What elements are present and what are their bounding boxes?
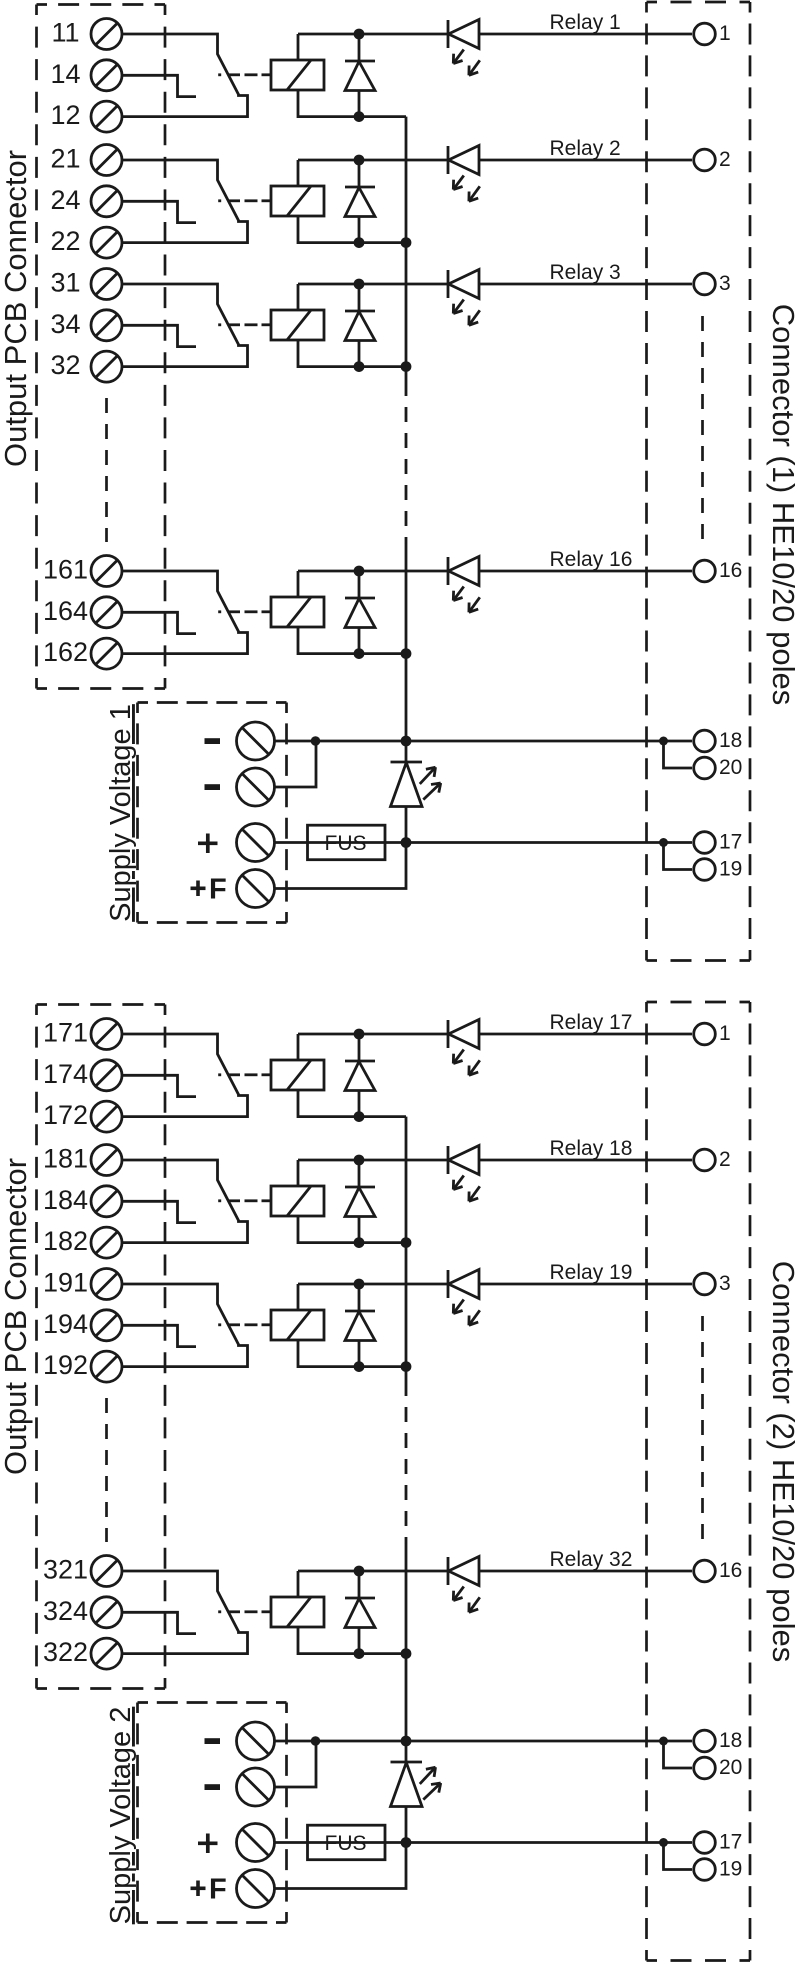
terminal 192 (screw) [91, 1351, 122, 1382]
svg-text:Relay 18: Relay 18 [550, 1137, 633, 1160]
svg-text:Relay 3: Relay 3 [550, 261, 621, 284]
wire LED to pin 1 [479, 33, 692, 36]
terminal +F screw [237, 1870, 275, 1908]
junction bus / relay bottom 2 [401, 1237, 412, 1248]
wire coil K19 bottom [298, 1340, 406, 1367]
terminal +F screw [237, 870, 275, 908]
svg-text:3: 3 [719, 272, 731, 295]
svg-text:Relay 19: Relay 19 [550, 1261, 633, 1284]
top rail relay 16 [298, 570, 448, 573]
wire coil K19 top [297, 1284, 300, 1310]
terminal 24 (screw) [91, 186, 122, 217]
terminal 324 (screw) [91, 1597, 122, 1628]
svg-text:34: 34 [50, 309, 80, 339]
connector pin 16 [694, 560, 716, 582]
svg-text:32: 32 [50, 350, 80, 380]
junction bus / relay bottom 3 [401, 1361, 412, 1372]
top rail relay 1 [298, 33, 448, 36]
wire LED to pin 2 [479, 159, 692, 162]
negative bus continuation (dashed) [405, 381, 408, 544]
wire coil K16 bottom [298, 627, 406, 654]
terminal + screw [237, 1824, 275, 1862]
svg-text:161: 161 [43, 555, 88, 585]
LED Relay 16 [447, 557, 450, 585]
connector pin 3 [694, 273, 716, 295]
connector pin 16 [694, 1560, 716, 1582]
svg-text:Relay 16: Relay 16 [550, 548, 633, 571]
junction bus / relay bottom 2 [401, 237, 412, 248]
top rail relay 3 [298, 283, 448, 286]
svg-text:Connector (2) HE10/20 poles: Connector (2) HE10/20 poles [766, 1261, 800, 1663]
svg-text:182: 182 [43, 1226, 88, 1256]
terminal - (1) screw [237, 1722, 275, 1760]
wire 324 NO contact stub [122, 1612, 196, 1633]
wire coil K3 bottom [298, 340, 406, 367]
terminal 322 (screw) [91, 1638, 122, 1669]
svg-text:F: F [209, 874, 227, 906]
connector pin 3 [694, 1273, 716, 1295]
relay coil K17 [271, 1060, 324, 1090]
relay coil K3 [271, 310, 324, 340]
junction diode D32 top [354, 1566, 365, 1577]
svg-text:18: 18 [719, 729, 742, 752]
wire coil K17 top [297, 1034, 300, 1060]
relay coil K16 [271, 597, 324, 627]
svg-text:Output PCB Connector: Output PCB Connector [0, 1158, 33, 1475]
wire 14 NO contact stub [122, 75, 196, 96]
wire LED to pin 2 [479, 1159, 692, 1162]
connector pin 19 [694, 1859, 716, 1881]
terminal 21 (screw) [91, 145, 122, 176]
junction bus / relay bottom 16 [401, 1648, 412, 1659]
wire 194 NO contact stub [122, 1325, 196, 1346]
wire 21-blade-22 with contact blade K2 [122, 160, 248, 243]
junction diode D1 top [354, 29, 365, 40]
actuating link K32 (dash-dot) [218, 1610, 221, 1613]
wire - rail [275, 1740, 693, 1743]
terminal 34 (screw) [91, 310, 122, 341]
LED Relay 2 [447, 146, 450, 174]
relay coil K1 [271, 60, 324, 90]
relay coil K19 [271, 1310, 324, 1340]
wire 171-blade-172 with contact blade K17 [122, 1034, 248, 1117]
junction - terminals [311, 1736, 321, 1746]
junction diode D2 bottom [354, 237, 365, 248]
LED Relay 17 [447, 1020, 450, 1048]
wire 164 NO contact stub [122, 612, 196, 633]
wire 184 NO contact stub [122, 1201, 196, 1222]
svg-text:321: 321 [43, 1555, 88, 1585]
svg-text:2: 2 [719, 148, 731, 171]
svg-text:171: 171 [43, 1018, 88, 1048]
actuating link K1 (dash-dot) [218, 73, 221, 76]
terminal 321 (screw) [91, 1556, 122, 1587]
LED Relay 19 [447, 1270, 450, 1298]
flyback diode D32 [358, 1571, 361, 1598]
wire coil K1 top [297, 34, 300, 60]
junction diode D17 top [354, 1029, 365, 1040]
svg-text:172: 172 [43, 1100, 88, 1130]
wire tap to pin 19 [664, 1843, 693, 1870]
svg-text:Supply Voltage 2: Supply Voltage 2 [105, 1707, 137, 1925]
junction - rail / bus [401, 1736, 412, 1747]
junction + rail / LED [401, 1837, 412, 1848]
junction - terminals [311, 736, 321, 746]
svg-text:174: 174 [43, 1059, 88, 1089]
junction diode D18 top [354, 1155, 365, 1166]
wire - (2) to - rail [275, 1741, 317, 1787]
wire 11-blade-12 with contact blade K1 [122, 34, 248, 117]
terminal 184 (screw) [91, 1186, 122, 1217]
LED Relay 32 [447, 1557, 450, 1585]
wire 191-blade-192 with contact blade K19 [122, 1284, 248, 1367]
terminal 182 (screw) [91, 1227, 122, 1258]
wire 181-blade-182 with contact blade K18 [122, 1160, 248, 1243]
Connector (2) HE10/20 poles box [647, 1002, 751, 1961]
junction diode D16 top [354, 566, 365, 577]
wire coil K18 bottom [298, 1216, 406, 1243]
fuse FUS 1 [308, 825, 386, 860]
supply LED 2 [405, 1741, 408, 1762]
negative bus (solid upper) [405, 1117, 408, 1381]
svg-text:19: 19 [719, 1858, 742, 1881]
wire coil K3 top [297, 284, 300, 310]
relay coil K18 [271, 1186, 324, 1216]
svg-text:192: 192 [43, 1350, 88, 1380]
terminal 172 (screw) [91, 1101, 122, 1132]
connector pin 18 [694, 1730, 716, 1752]
terminal column continuation (dashed) [105, 398, 108, 542]
wire 34 NO contact stub [122, 325, 196, 346]
junction diode D19 top [354, 1279, 365, 1290]
terminal 164 (screw) [91, 597, 122, 628]
flyback diode D18 [358, 1160, 361, 1187]
wire +F to + rail [275, 843, 407, 889]
terminal 11 (screw) [91, 19, 122, 50]
wire coil K18 top [297, 1160, 300, 1186]
connector pin 1 [694, 1023, 716, 1045]
svg-text:324: 324 [43, 1596, 88, 1626]
top rail relay 17 [298, 1033, 448, 1036]
wire + rail (through fuse) [275, 841, 693, 844]
terminal - (2) label [205, 784, 221, 790]
terminal + screw [237, 824, 275, 862]
svg-text:3: 3 [719, 1272, 731, 1295]
terminal 14 (screw) [91, 60, 122, 91]
terminal 12 (screw) [91, 101, 122, 132]
top rail relay 19 [298, 1283, 448, 1286]
junction + rail / LED [401, 837, 412, 848]
flyback diode D3 [358, 284, 361, 311]
svg-text:Relay 32: Relay 32 [550, 1548, 633, 1571]
wire +F to + rail [275, 1843, 407, 1889]
actuating link K2 (dash-dot) [218, 199, 221, 202]
connector pin 18 [694, 730, 716, 752]
svg-text:17: 17 [719, 1831, 742, 1854]
svg-text:1: 1 [719, 22, 731, 45]
terminal - (2) screw [237, 768, 275, 806]
relay coil K32 [271, 1597, 324, 1627]
supply LED 1 [405, 741, 408, 762]
junction diode D3 bottom [354, 361, 365, 372]
junction diode D19 bottom [354, 1361, 365, 1372]
terminal +F label [191, 886, 206, 890]
wire tap to pin 20 [664, 741, 693, 768]
svg-text:24: 24 [50, 185, 80, 215]
junction bus / relay bottom 16 [401, 648, 412, 659]
wire tap to pin 19 [664, 843, 693, 870]
terminal - (1) screw [237, 722, 275, 760]
terminal - (1) label [205, 738, 221, 744]
wire coil K2 bottom [298, 216, 406, 243]
Output PCB Connector box (1) [37, 5, 166, 689]
terminal column continuation (dashed) [105, 1398, 108, 1542]
svg-text:22: 22 [50, 226, 80, 256]
terminal +F label [191, 1887, 206, 1891]
svg-text:18: 18 [719, 1729, 742, 1752]
actuating link K16 (dash-dot) [218, 610, 221, 613]
svg-text:164: 164 [43, 596, 88, 626]
svg-text:191: 191 [43, 1268, 88, 1298]
svg-text:16: 16 [719, 1559, 742, 1582]
wire 161-blade-162 with contact blade K16 [122, 571, 248, 654]
wire LED to pin 16 [479, 1570, 692, 1573]
negative bus continuation (dashed) [405, 1381, 408, 1544]
wire LED to pin 1 [479, 1033, 692, 1036]
terminal 31 (screw) [91, 269, 122, 300]
svg-text:12: 12 [50, 100, 80, 130]
wire coil K16 top [297, 571, 300, 597]
svg-text:Relay 1: Relay 1 [550, 11, 621, 34]
connector pin 17 [694, 832, 716, 854]
terminal + label [198, 1841, 218, 1845]
junction diode D18 bottom [354, 1237, 365, 1248]
fuse FUS 2 [308, 1825, 386, 1860]
connector pin 20 [694, 757, 716, 779]
terminal - (2) label [205, 1784, 221, 1790]
wire 31-blade-32 with contact blade K3 [122, 284, 248, 367]
LED Relay 18 [447, 1146, 450, 1174]
junction diode D16 bottom [354, 648, 365, 659]
relay coil K2 [271, 186, 324, 216]
svg-text:20: 20 [719, 756, 742, 779]
svg-text:Relay 2: Relay 2 [550, 137, 621, 160]
flyback diode D2 [358, 160, 361, 187]
junction diode D1 bottom [354, 111, 365, 122]
svg-text:F: F [209, 1874, 227, 1906]
junction + rail / pin 19 tap [659, 1838, 668, 1847]
svg-text:181: 181 [43, 1144, 88, 1174]
terminal 194 (screw) [91, 1310, 122, 1341]
negative bus (solid lower) [405, 544, 408, 741]
svg-text:14: 14 [50, 59, 80, 89]
junction diode D17 bottom [354, 1111, 365, 1122]
svg-text:11: 11 [51, 18, 79, 48]
svg-text:Connector (1) HE10/20 poles: Connector (1) HE10/20 poles [766, 304, 800, 706]
connector pin 17 [694, 1832, 716, 1854]
junction - rail / bus [401, 736, 412, 747]
connector pin 1 [694, 23, 716, 45]
svg-text:Supply Voltage 1: Supply Voltage 1 [105, 704, 137, 922]
junction bus / relay bottom 3 [401, 361, 412, 372]
negative bus (solid upper) [405, 117, 408, 381]
connector pin 2 [694, 149, 716, 171]
actuating link K17 (dash-dot) [218, 1073, 221, 1076]
Connector (1) HE10/20 poles box [647, 2, 751, 961]
pin column continuation (dashed) [701, 316, 704, 546]
svg-text:194: 194 [43, 1309, 88, 1339]
wire 321-blade-322 with contact blade K32 [122, 1571, 248, 1654]
top rail relay 2 [298, 159, 448, 162]
svg-text:162: 162 [43, 637, 88, 667]
junction diode D32 bottom [354, 1648, 365, 1659]
terminal - (2) screw [237, 1768, 275, 1806]
wire coil K32 bottom [298, 1627, 406, 1654]
actuating link K18 (dash-dot) [218, 1199, 221, 1202]
connector pin 20 [694, 1757, 716, 1779]
svg-text:17: 17 [719, 831, 742, 854]
svg-text:16: 16 [719, 559, 742, 582]
svg-text:184: 184 [43, 1185, 88, 1215]
actuating link K3 (dash-dot) [218, 323, 221, 326]
wire 174 NO contact stub [122, 1075, 196, 1096]
wire LED to pin 3 [479, 283, 692, 286]
terminal 32 (screw) [91, 351, 122, 382]
svg-text:21: 21 [50, 144, 80, 174]
flyback diode D17 [358, 1034, 361, 1061]
terminal 22 (screw) [91, 227, 122, 258]
terminal 191 (screw) [91, 1269, 122, 1300]
connector pin 19 [694, 859, 716, 881]
terminal - (1) label [205, 1738, 221, 1744]
svg-text:322: 322 [43, 1637, 88, 1667]
svg-text:19: 19 [719, 858, 742, 881]
wire + rail (through fuse) [275, 1841, 693, 1844]
LED Relay 3 [447, 270, 450, 298]
wire - rail [275, 740, 693, 743]
wire 24 NO contact stub [122, 201, 196, 222]
flyback diode D1 [358, 34, 361, 61]
wire LED to pin 16 [479, 570, 692, 573]
flyback diode D19 [358, 1284, 361, 1311]
wire tap to pin 20 [664, 1741, 693, 1768]
svg-text:Relay 17: Relay 17 [550, 1011, 633, 1034]
junction diode D2 top [354, 155, 365, 166]
LED Relay 1 [447, 20, 450, 48]
svg-text:2: 2 [719, 1148, 731, 1171]
junction + rail / pin 19 tap [659, 838, 668, 847]
svg-text:FUS: FUS [325, 1832, 367, 1855]
wire - (2) to - rail [275, 741, 317, 787]
Supply Voltage 2 box [138, 1703, 287, 1923]
connector pin 2 [694, 1149, 716, 1171]
svg-text:20: 20 [719, 1756, 742, 1779]
svg-text:FUS: FUS [325, 832, 367, 855]
pin column continuation (dashed) [701, 1316, 704, 1546]
Output PCB Connector box (2) [37, 1005, 166, 1689]
top rail relay 32 [298, 1570, 448, 1573]
actuating link K19 (dash-dot) [218, 1323, 221, 1326]
terminal 174 (screw) [91, 1060, 122, 1091]
flyback diode D16 [358, 571, 361, 598]
terminal 181 (screw) [91, 1145, 122, 1176]
wire LED to pin 3 [479, 1283, 692, 1286]
terminal 171 (screw) [91, 1019, 122, 1050]
junction - rail / pin 20 tap [659, 1737, 668, 1746]
terminal 161 (screw) [91, 556, 122, 587]
wire coil K32 top [297, 1571, 300, 1597]
svg-text:31: 31 [50, 268, 80, 298]
terminal 162 (screw) [91, 638, 122, 669]
wire coil K2 top [297, 160, 300, 186]
svg-text:1: 1 [719, 1022, 731, 1045]
wire coil K1 bottom [298, 90, 406, 117]
junction - rail / pin 20 tap [659, 737, 668, 746]
terminal + label [198, 841, 218, 845]
top rail relay 18 [298, 1159, 448, 1162]
junction diode D3 top [354, 279, 365, 290]
Supply Voltage 1 box [138, 703, 287, 923]
negative bus (solid lower) [405, 1544, 408, 1741]
svg-text:Output PCB Connector: Output PCB Connector [0, 150, 33, 467]
wire coil K17 bottom [298, 1090, 406, 1117]
